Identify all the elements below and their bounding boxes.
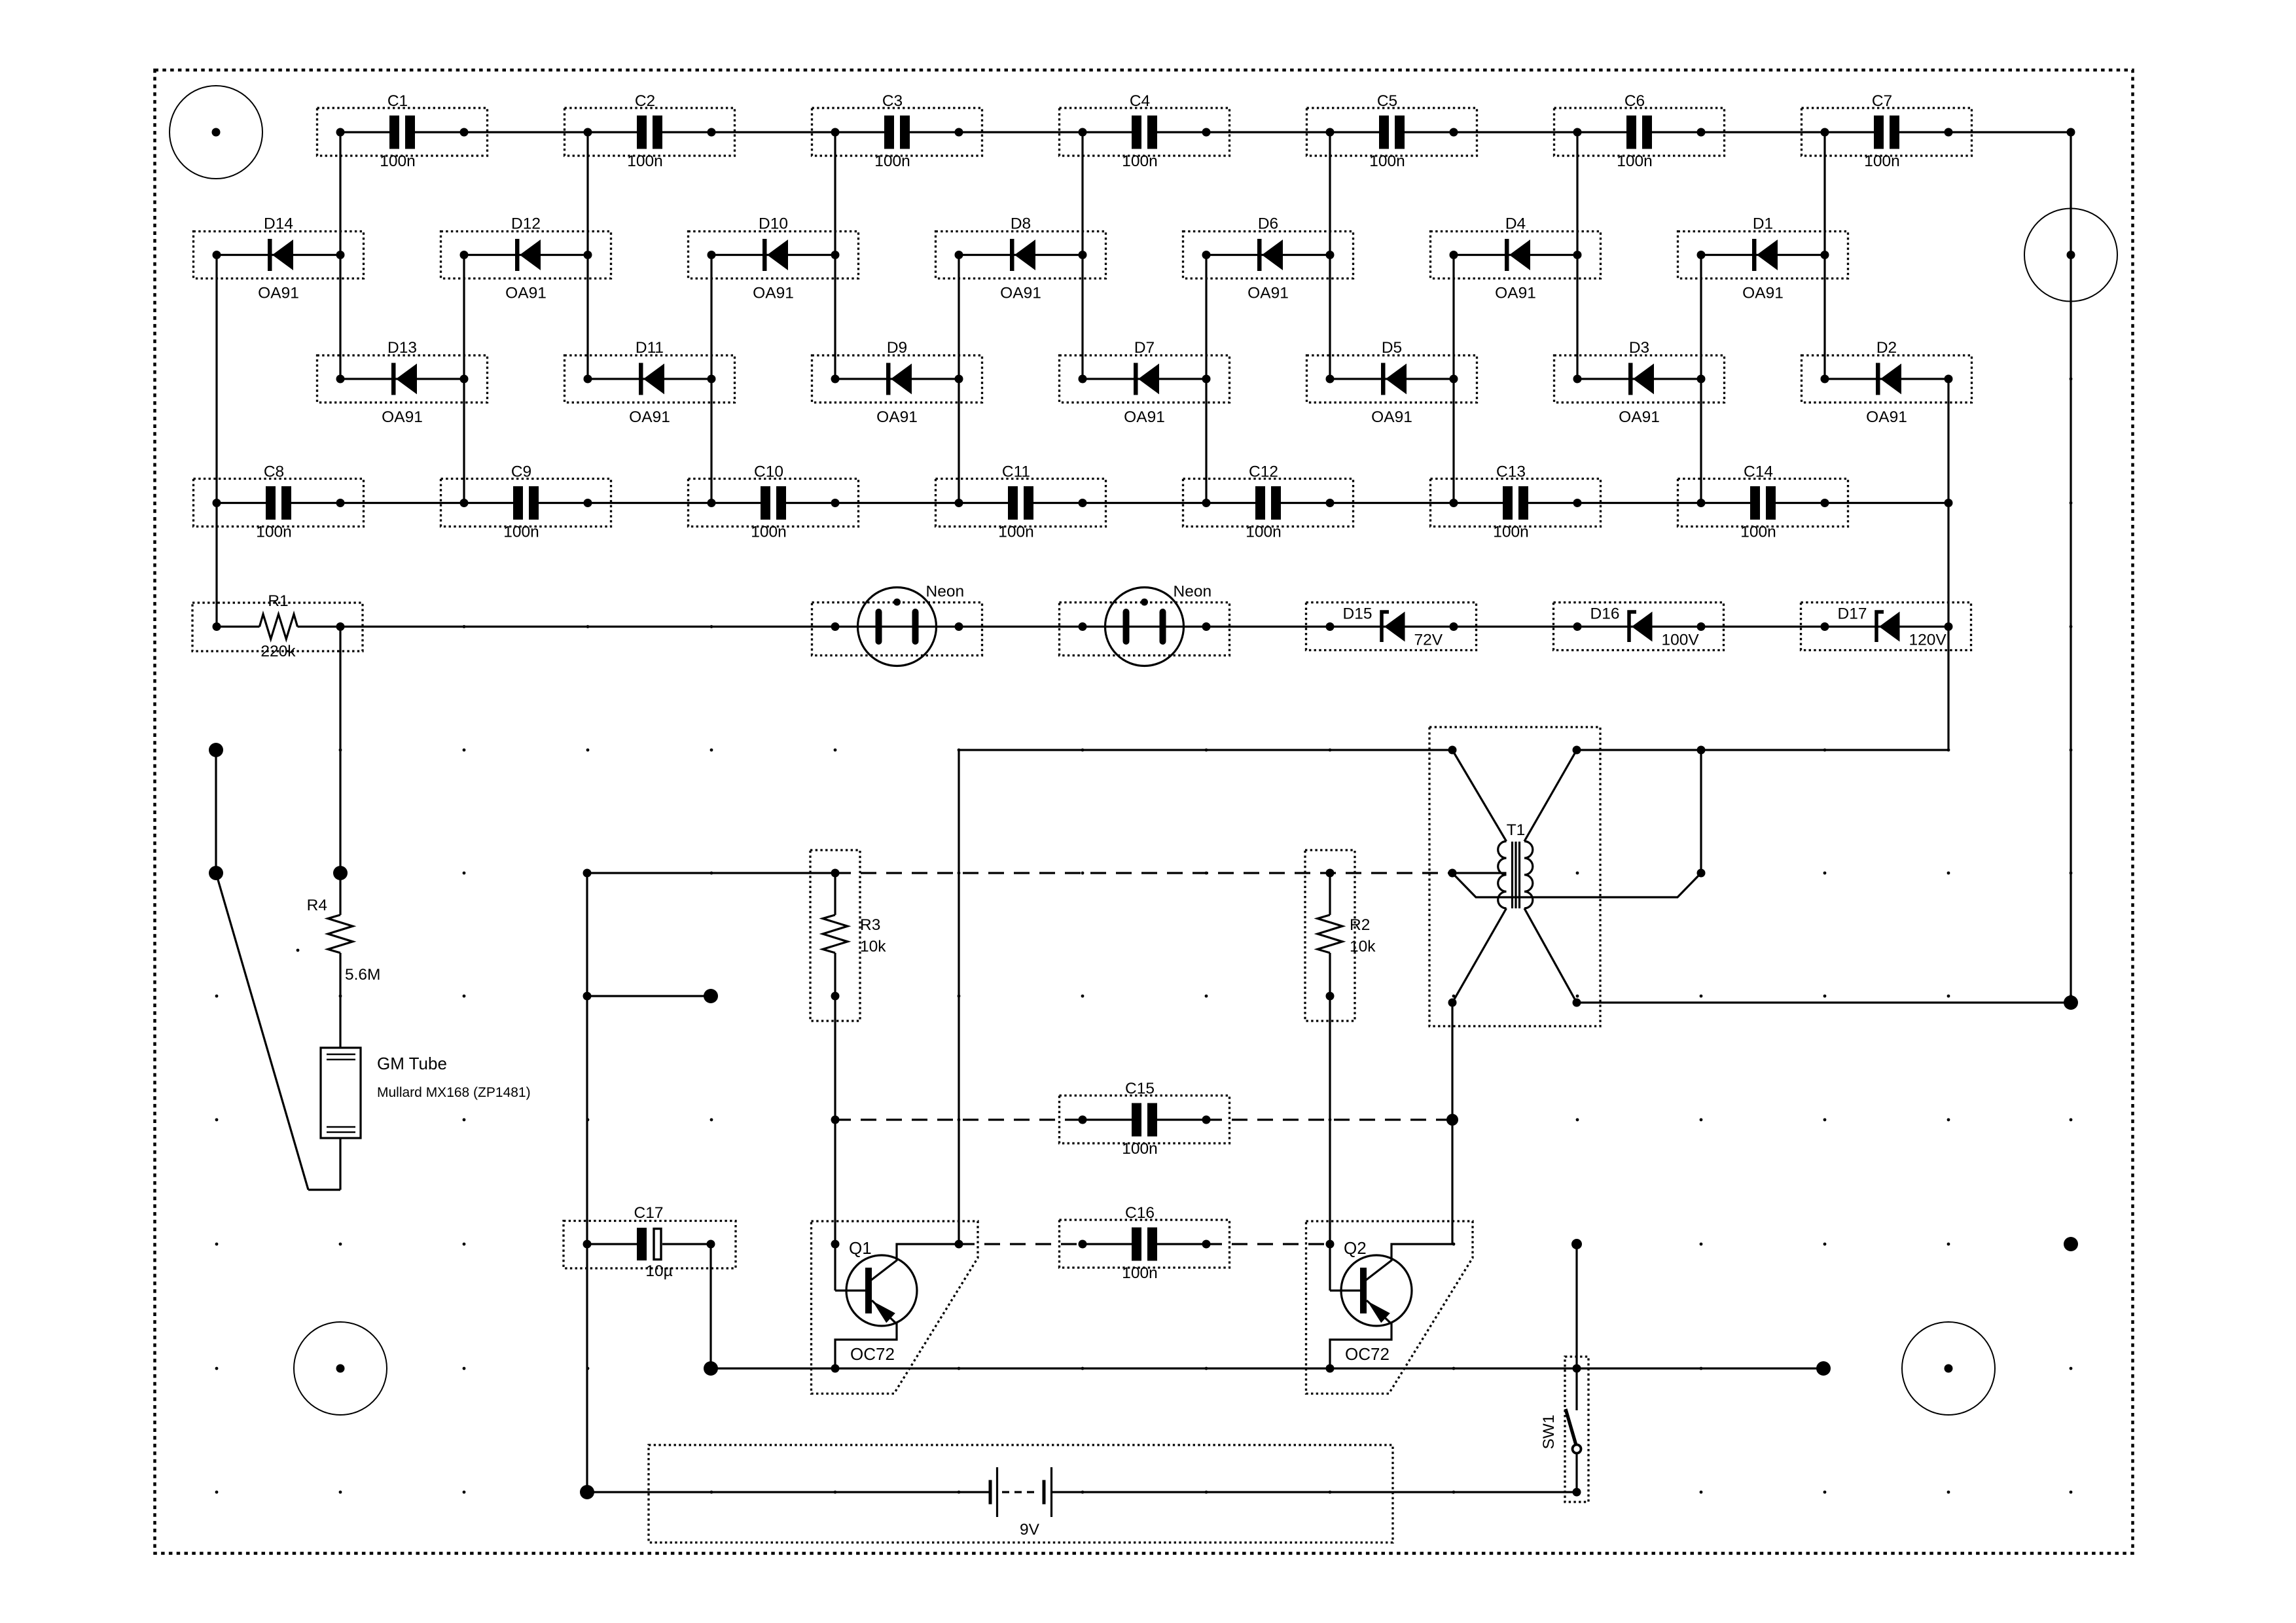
svg-text:100n: 100n [1369, 152, 1405, 170]
svg-text:D16: D16 [1590, 605, 1620, 623]
svg-text:OA91: OA91 [1866, 408, 1907, 426]
svg-text:10k: 10k [860, 938, 886, 955]
svg-text:D13: D13 [387, 339, 417, 357]
svg-text:D3: D3 [1629, 339, 1649, 357]
svg-text:D7: D7 [1134, 339, 1155, 357]
svg-text:100n: 100n [1617, 152, 1653, 170]
svg-text:100n: 100n [1122, 1140, 1158, 1158]
svg-text:OA91: OA91 [1371, 408, 1412, 426]
svg-text:R1: R1 [268, 592, 288, 610]
svg-text:OA91: OA91 [629, 408, 670, 426]
svg-text:OA91: OA91 [258, 285, 299, 302]
svg-text:D9: D9 [887, 339, 907, 357]
svg-text:C9: C9 [511, 463, 531, 481]
svg-text:GM Tube: GM Tube [377, 1054, 447, 1073]
svg-text:Neon: Neon [1174, 583, 1212, 601]
svg-text:OA91: OA91 [1495, 285, 1536, 302]
svg-text:72V: 72V [1414, 632, 1443, 649]
svg-text:OA91: OA91 [1247, 285, 1289, 302]
svg-text:Q1: Q1 [849, 1238, 872, 1258]
svg-text:R3: R3 [860, 916, 880, 934]
svg-text:100n: 100n [751, 524, 787, 541]
svg-text:C15: C15 [1125, 1080, 1155, 1097]
svg-text:OA91: OA91 [1742, 285, 1784, 302]
svg-text:C7: C7 [1872, 92, 1892, 110]
svg-text:9V: 9V [1020, 1521, 1040, 1539]
svg-text:OA91: OA91 [382, 408, 423, 426]
svg-text:D10: D10 [759, 215, 788, 233]
svg-text:100n: 100n [627, 152, 663, 170]
svg-text:D5: D5 [1382, 339, 1402, 357]
svg-text:OA91: OA91 [1619, 408, 1660, 426]
svg-text:SW1: SW1 [1540, 1414, 1558, 1449]
svg-text:D6: D6 [1258, 215, 1278, 233]
svg-text:D4: D4 [1505, 215, 1526, 233]
svg-text:C11: C11 [1002, 463, 1030, 481]
svg-text:Mullard MX168 (ZP1481): Mullard MX168 (ZP1481) [377, 1085, 531, 1100]
svg-text:C10: C10 [754, 463, 783, 481]
svg-text:C3: C3 [882, 92, 903, 110]
svg-text:10µ: 10µ [645, 1262, 672, 1280]
svg-text:C6: C6 [1624, 92, 1645, 110]
svg-text:C14: C14 [1744, 463, 1773, 481]
svg-text:C5: C5 [1377, 92, 1397, 110]
svg-text:C4: C4 [1130, 92, 1150, 110]
svg-text:OA91: OA91 [876, 408, 918, 426]
svg-text:D15: D15 [1343, 605, 1372, 623]
svg-text:100n: 100n [1122, 152, 1158, 170]
svg-text:D2: D2 [1876, 339, 1897, 357]
svg-text:OA91: OA91 [505, 285, 547, 302]
svg-text:Neon: Neon [926, 583, 965, 601]
svg-text:100n: 100n [998, 524, 1034, 541]
svg-text:OA91: OA91 [1124, 408, 1165, 426]
svg-text:D8: D8 [1011, 215, 1031, 233]
svg-text:R2: R2 [1350, 916, 1370, 934]
svg-text:D11: D11 [636, 339, 664, 357]
svg-text:100n: 100n [1122, 1264, 1158, 1282]
svg-text:C17: C17 [634, 1204, 664, 1222]
svg-text:D17: D17 [1838, 605, 1867, 623]
svg-text:OC72: OC72 [850, 1344, 895, 1364]
svg-text:C12: C12 [1249, 463, 1278, 481]
svg-text:5.6M: 5.6M [345, 966, 380, 984]
svg-text:100n: 100n [1740, 524, 1776, 541]
svg-text:C2: C2 [635, 92, 655, 110]
svg-text:C1: C1 [387, 92, 408, 110]
svg-text:T1: T1 [1507, 821, 1526, 839]
svg-text:OA91: OA91 [753, 285, 794, 302]
svg-text:D12: D12 [511, 215, 541, 233]
svg-text:C13: C13 [1496, 463, 1526, 481]
svg-text:100n: 100n [503, 524, 539, 541]
svg-text:C8: C8 [264, 463, 284, 481]
svg-text:100n: 100n [1246, 524, 1282, 541]
svg-text:100n: 100n [1864, 152, 1900, 170]
svg-text:100n: 100n [1493, 524, 1529, 541]
svg-text:D1: D1 [1753, 215, 1773, 233]
svg-text:100V: 100V [1662, 632, 1700, 649]
svg-text:100n: 100n [380, 152, 416, 170]
svg-text:Q2: Q2 [1344, 1238, 1367, 1258]
svg-text:D14: D14 [264, 215, 293, 233]
svg-text:R4: R4 [307, 897, 327, 914]
svg-text:10k: 10k [1350, 938, 1376, 955]
svg-text:OC72: OC72 [1345, 1344, 1390, 1364]
svg-text:100n: 100n [874, 152, 910, 170]
svg-text:C16: C16 [1125, 1204, 1155, 1222]
svg-text:220k: 220k [260, 643, 296, 660]
svg-text:OA91: OA91 [1000, 285, 1041, 302]
svg-text:100n: 100n [256, 524, 292, 541]
svg-text:120V: 120V [1909, 632, 1947, 649]
